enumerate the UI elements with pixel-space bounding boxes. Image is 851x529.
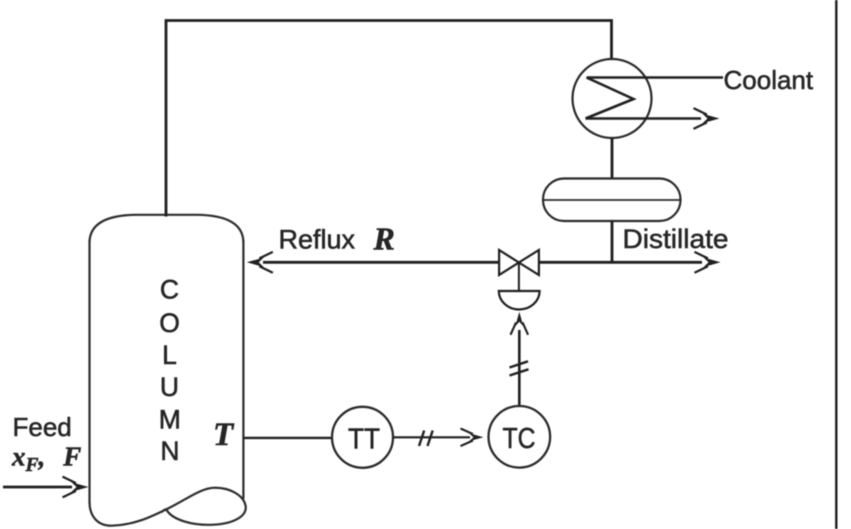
- svg-text:N: N: [160, 436, 179, 466]
- valve stem: [518, 263, 520, 292]
- feed line: [3, 486, 72, 489]
- label COLUMN: [159, 274, 181, 466]
- svg-text:TT: TT: [348, 423, 380, 455]
- svg-text:R: R: [373, 221, 395, 257]
- coolant inlet line: [587, 76, 724, 78]
- feed arrowhead into column: [63, 477, 89, 498]
- reflux drum D1: [543, 179, 681, 222]
- column C1 vessel: [90, 215, 246, 526]
- transmitter TT bubble: [332, 407, 393, 468]
- svg-text:Reflux: Reflux: [279, 225, 356, 255]
- distillate arrowhead: [695, 252, 721, 273]
- valve actuator diaphragm bowl: [499, 291, 540, 309]
- svg-text:T: T: [213, 417, 235, 453]
- signal arrowhead into TC: [461, 429, 484, 447]
- signal arrowhead into valve actuator: [511, 312, 529, 335]
- svg-text:U: U: [160, 372, 179, 402]
- reflux arrowhead into column: [247, 252, 273, 273]
- svg-text:Coolant: Coolant: [724, 65, 814, 95]
- svg-text:C: C: [160, 274, 179, 304]
- svg-text:Distillate: Distillate: [623, 224, 729, 254]
- svg-text:M: M: [159, 404, 181, 434]
- svg-text:TC: TC: [503, 423, 536, 455]
- drum liquid level line: [544, 199, 681, 201]
- electric signal hash marks on TC-valve line: [510, 361, 529, 375]
- condenser E1 shell: [573, 59, 652, 138]
- electric signal hash marks on TT-TC line: [419, 431, 433, 447]
- coolant outlet line: [586, 117, 702, 119]
- node T temperature tap line: [243, 437, 332, 439]
- condenser coil: [586, 78, 634, 119]
- svg-text:O: O: [159, 308, 180, 338]
- controller TC bubble: [489, 406, 551, 468]
- distillate line (valve through drum tee to product): [539, 261, 703, 264]
- svg-text:L: L: [162, 340, 177, 370]
- overhead vapor line (column top to condenser): [166, 21, 612, 217]
- figure right edge rule: [835, 0, 837, 529]
- svg-text:xF,F: xF,F: [11, 442, 81, 477]
- coolant outlet arrowhead: [694, 108, 720, 129]
- reflux line (valve to column): [263, 261, 500, 264]
- signal line TC to valve: [518, 330, 521, 407]
- signal line TT to TC: [393, 436, 470, 438]
- drum outlet line: [611, 221, 614, 261]
- svg-text:Feed: Feed: [13, 412, 72, 442]
- condenser to reflux-drum line: [611, 138, 614, 179]
- control valve V1 body: [499, 250, 539, 275]
